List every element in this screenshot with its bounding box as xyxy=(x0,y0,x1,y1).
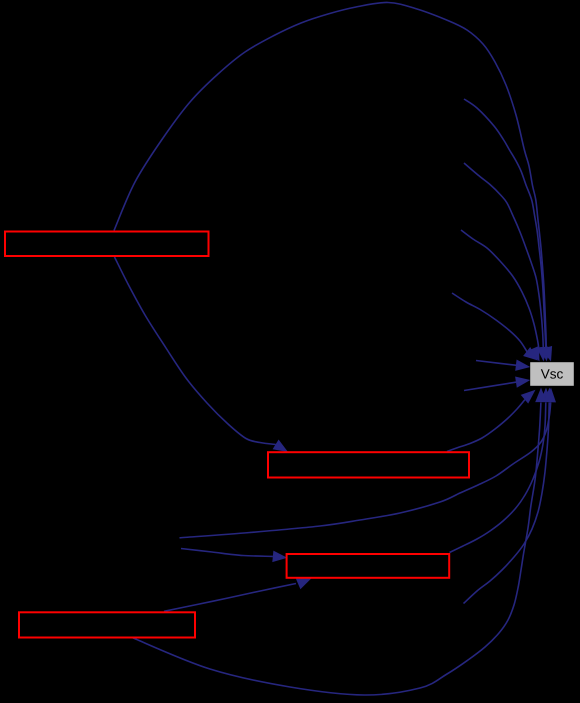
wire edge B2 to Vsc xyxy=(447,400,525,452)
arrowhead of edge B1 to Vsc (big top arc) xyxy=(540,347,552,362)
arrowhead of edge B3 to Vsc xyxy=(540,388,552,403)
wire edge hidden node H7 to B3 xyxy=(181,549,273,557)
arrowhead of edge hidden node H8 to Vsc (bottom fan) xyxy=(543,388,555,403)
arrowhead of edge hidden node H3 to Vsc (top fan 4) xyxy=(528,346,539,362)
node B4 (red box, label hidden) xyxy=(19,612,195,637)
wire edge hidden node H1 to Vsc (top fan 2) xyxy=(464,99,546,348)
arrowhead of edge hidden node H7 to B3 xyxy=(272,551,287,563)
arrowhead of edge hidden node H7 to Vsc (bottom fan) xyxy=(545,388,557,403)
arrowhead of edge B4 to Vsc (bottom sweep) xyxy=(535,388,547,403)
wire edge hidden node H8 to Vsc (bottom fan) xyxy=(464,403,550,604)
node B3 (red box, label hidden) xyxy=(287,554,450,578)
wire edge hidden node H2 to Vsc (top fan 3) xyxy=(464,163,543,348)
wire edge B1 to Vsc (big top arc) xyxy=(114,2,546,348)
arrowhead of edge hidden node H6 to Vsc (left lower) xyxy=(515,377,530,388)
arrowhead of edge hidden node H4 to Vsc (top fan 5) xyxy=(523,347,538,361)
wire edge hidden node H6 to Vsc (left lower) xyxy=(464,382,517,390)
wire edge B1 to B2 xyxy=(115,257,276,445)
wire edge B4 to B3 xyxy=(164,584,296,612)
node Vsc (current node, grey fill) xyxy=(530,362,574,386)
wire edge hidden node H4 to Vsc (top fan 5) xyxy=(452,293,527,352)
wire edge hidden node H7 to Vsc (bottom fan) xyxy=(180,403,551,538)
node B2 (red box, label hidden) xyxy=(268,452,469,477)
wire edge B3 to Vsc xyxy=(450,403,546,553)
label Vsc xyxy=(541,369,563,378)
arrowhead of edge hidden node H1 to Vsc (top fan 2) xyxy=(541,346,552,362)
wire edge hidden node H5 to Vsc (left upper) xyxy=(476,361,517,366)
arrowhead of edge hidden node H5 to Vsc (left upper) xyxy=(515,360,530,371)
wire edge B4 to Vsc (bottom sweep) xyxy=(132,403,541,696)
wire edge hidden node H3 to Vsc (top fan 4) xyxy=(461,230,539,349)
arrowhead of edge hidden node H2 to Vsc (top fan 3) xyxy=(537,347,549,362)
arrowhead of edge B1 to B2 xyxy=(273,440,288,453)
arrowhead of edge B4 to B3 xyxy=(296,578,312,589)
node B1 (red box, label hidden) xyxy=(5,232,209,257)
arrowhead of edge B2 to Vsc xyxy=(521,390,536,404)
